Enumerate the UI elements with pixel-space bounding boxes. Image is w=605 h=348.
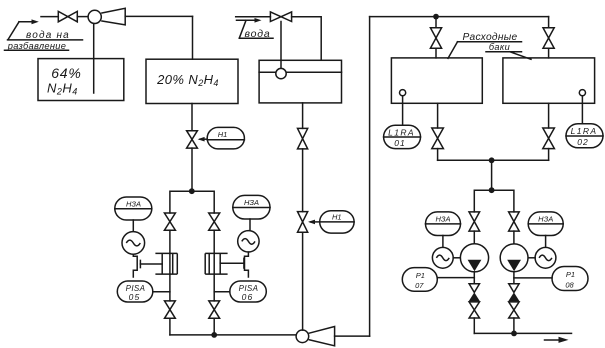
wire pump PC2 outlet: [513, 272, 515, 284]
valve V17: [509, 302, 519, 318]
piston rod PMP1: [140, 263, 162, 265]
svg-text:НЗА: НЗА: [538, 215, 553, 224]
wire valve V15 to pump PC2: [513, 231, 515, 244]
wire stem to valve V10: [435, 17, 437, 28]
wire feed water-dilution inlet: [41, 16, 58, 18]
check valve CV2 filled triangle: [508, 292, 519, 301]
water label arrow: [237, 19, 258, 21]
tank T1 (64% N2H4): [38, 59, 124, 101]
valve V1 (horizontal gate valve): [58, 11, 77, 21]
instrument P107 oval: [402, 268, 437, 292]
dosing pump PMP1 body: [155, 253, 177, 274]
tank T3 level line: [259, 71, 341, 73]
label underline 2: [5, 49, 69, 51]
motor M1: [122, 232, 145, 255]
wire water inlet: [236, 16, 271, 18]
wire P107 tap: [437, 277, 474, 279]
valve V16: [469, 302, 479, 318]
label leader diagonal: [8, 22, 19, 40]
instrument H1b oval: [320, 211, 354, 233]
junction dot J4: [489, 157, 495, 163]
wire water stem to tank T3: [280, 22, 282, 69]
instrument HSA3 oval: [426, 212, 461, 236]
wire through pump PMP1: [169, 253, 171, 274]
svg-text:01: 01: [394, 138, 405, 148]
wire riser down to tank T2: [192, 16, 194, 59]
svg-text:07: 07: [415, 281, 424, 290]
wire valve V1 to mixer circle: [77, 16, 88, 18]
valve V15: [509, 212, 520, 231]
instrument PISA06 oval: [230, 281, 266, 302]
svg-text:разбавление: разбавление: [7, 41, 66, 51]
wire branch header to dosing pumps: [170, 191, 214, 213]
wire PISA05 tap: [153, 291, 170, 293]
valve V3: [164, 213, 175, 230]
svg-text:НЗА: НЗА: [244, 198, 259, 207]
instrument LIRA01 oval: [384, 125, 421, 148]
check valve CV2 open triangle: [509, 284, 519, 293]
svg-text:Н1: Н1: [332, 212, 342, 221]
valve V5: [165, 301, 176, 318]
crank drive of pump PMP1: [133, 254, 137, 277]
check valve CV1 filled triangle: [469, 292, 480, 301]
tank TA level sensor circle: [400, 90, 406, 96]
junction dot J6: [511, 331, 517, 337]
motor M2: [238, 231, 259, 252]
junction dot J5: [489, 187, 495, 193]
label leader to tank TA: [448, 42, 458, 59]
svg-text:02: 02: [577, 137, 588, 147]
wire valve V6 to header: [213, 318, 215, 335]
water label underline: [239, 37, 273, 39]
wire tank TB outlet: [548, 103, 550, 128]
wire header2: [438, 159, 549, 161]
wire valve V10 to tank TA: [435, 48, 437, 58]
wire tank T2 outlet down: [191, 104, 193, 131]
tank TA (supply tank): [391, 58, 482, 103]
wire HSA4 to motor M4: [545, 236, 547, 248]
ejector E1 suction circle: [88, 10, 101, 23]
valve V9 (horizontal): [270, 12, 291, 22]
valve V6: [209, 301, 220, 318]
valve V4: [209, 213, 220, 230]
wire pump PC1 outlet: [473, 272, 475, 284]
svg-text:вода: вода: [245, 28, 271, 40]
svg-text:05: 05: [129, 292, 141, 302]
water label diagonal: [239, 20, 246, 38]
outlet flow arrow: [545, 339, 561, 341]
wire motor M3 to pump PC1: [453, 257, 460, 259]
svg-text:08: 08: [565, 280, 574, 289]
instrument HSA2 oval: [233, 195, 270, 219]
instrument HSA4 oval: [528, 212, 563, 236]
wire tank TA sensor to LIRA01: [402, 96, 404, 126]
tank T3: [259, 60, 341, 103]
instrument H1b signal arrow: [311, 221, 320, 223]
svg-text:20% N2H4: 20% N2H4: [156, 72, 219, 88]
wire valve V12 down to header2: [437, 149, 439, 161]
wire J4 to J5: [491, 160, 493, 190]
wire valve V4 to pump PMP2: [213, 230, 215, 253]
wire ejector E1 outlet to riser: [125, 15, 192, 17]
wire valve V2 to junction: [191, 148, 193, 191]
instrument H1a signal arrow: [200, 138, 208, 140]
svg-text:баки: баки: [489, 42, 510, 52]
wire outlet header: [474, 332, 571, 334]
wire P108 tap: [514, 277, 552, 279]
wire valve V3 to pump PMP1: [169, 230, 171, 253]
wire tank TA outlet: [437, 103, 439, 128]
ejector E2 suction circle: [296, 330, 309, 343]
check valve CV1 open triangle: [469, 284, 479, 293]
motor M4: [535, 247, 556, 268]
instrument PISA05 oval: [117, 281, 153, 302]
label underline 1: [8, 39, 83, 41]
svg-text:НЗА: НЗА: [126, 200, 141, 209]
ejector E2 cone: [309, 327, 335, 346]
transfer pump PC1: [460, 244, 488, 272]
wire riser to supply header: [369, 17, 371, 337]
valve V8: [298, 128, 308, 149]
wire valve V9 to corner: [292, 17, 322, 61]
wire valve V16 to outlet header: [473, 318, 475, 333]
tank T3 float circle C2: [276, 68, 286, 78]
wire middle column tank T3 to ejector E2: [302, 103, 304, 330]
wire dip pipe into tank T1: [93, 24, 95, 94]
instrument HSA1 oval: [115, 197, 152, 220]
svg-text:64%: 64%: [51, 65, 81, 81]
instrument P108 oval: [552, 267, 588, 291]
valve V7: [298, 212, 308, 233]
wire HSA1 to motor M1: [132, 220, 134, 232]
wire valve V14 to pump PC1: [473, 231, 475, 244]
instrument H1a oval: [207, 127, 244, 148]
valve V10: [430, 28, 441, 49]
wire supply header top: [370, 16, 549, 18]
valve V11: [543, 28, 554, 49]
svg-text:L1RA: L1RA: [388, 128, 415, 138]
tank TB (supply tank): [503, 58, 595, 103]
crosshead tick PMP2: [243, 258, 245, 268]
svg-text:06: 06: [242, 292, 254, 302]
svg-text:Н1: Н1: [218, 130, 228, 139]
wire valve V5 to header: [169, 318, 171, 335]
wire ejector E2 inlet: [335, 335, 370, 337]
svg-text:Р1: Р1: [416, 271, 425, 280]
valve V12: [432, 128, 444, 149]
junction dot J1: [189, 188, 195, 194]
svg-text:НЗА: НЗА: [435, 215, 450, 224]
wire through pump PMP2: [213, 253, 215, 274]
wire PISA06 tap: [214, 291, 230, 293]
tank T2 (20% N2H4): [146, 59, 238, 103]
transfer pump PC2: [500, 244, 528, 272]
wire motor M4 to pump PC2: [528, 257, 535, 259]
wire valve V17 to outlet header: [513, 318, 515, 333]
valve V2: [187, 131, 198, 148]
ejector E1 cone: [101, 8, 125, 25]
dosing pump PMP2 body: [205, 253, 227, 274]
label leader to tank TB: [510, 52, 531, 60]
svg-text:Р1: Р1: [566, 270, 575, 279]
valve V14: [469, 212, 480, 231]
wire HSA3 to motor M3: [442, 236, 444, 248]
wire discharge header to ejector E2: [170, 334, 296, 336]
wire HSA2 to motor M2: [249, 219, 251, 231]
valve V13: [543, 128, 555, 149]
svg-text:вода на: вода на: [26, 30, 70, 41]
crosshead tick PMP1: [139, 260, 141, 267]
wire pump PMP2 outlet: [213, 274, 215, 301]
junction dot J2: [211, 332, 217, 338]
junction dot J3: [433, 14, 439, 20]
piston rod PMP2: [220, 262, 244, 264]
wire valve V13 down to header2: [548, 149, 550, 161]
wire tank TB sensor to LIRA02: [581, 96, 583, 124]
label leader arrow (вода на разбавление): [19, 21, 35, 23]
instrument LIRA02 oval: [566, 124, 603, 148]
motor M3: [432, 247, 453, 268]
svg-text:L1RA: L1RA: [571, 126, 598, 136]
crank drive of pump PMP2: [245, 252, 249, 277]
tank TB level sensor circle: [579, 90, 585, 96]
wire branch to transfer pumps: [474, 190, 514, 212]
wire stem to valve V11: [548, 17, 550, 28]
wire valve V11 to tank TB: [548, 48, 550, 58]
wire pump PMP1 outlet: [169, 274, 171, 301]
